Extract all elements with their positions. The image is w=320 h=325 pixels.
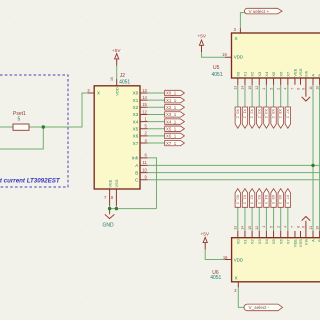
- svg-text:16: 16: [110, 77, 114, 81]
- svg-text:X: X: [97, 91, 100, 96]
- svg-text:X1: X1: [133, 98, 139, 103]
- svg-text:X3_1: X3_1: [166, 112, 177, 117]
- svg-text:V_select -: V_select -: [249, 305, 270, 310]
- svg-text:X2_1: X2_1: [166, 105, 177, 110]
- svg-text:X4_3: X4_3: [264, 195, 269, 205]
- svg-text:X4_1: X4_1: [166, 119, 177, 124]
- svg-text:12: 12: [142, 109, 147, 114]
- svg-text:X4: X4: [133, 119, 139, 124]
- svg-text:X6_3: X6_3: [278, 195, 283, 205]
- svg-text:X5: X5: [133, 126, 139, 131]
- svg-text:VEE: VEE: [107, 179, 112, 187]
- svg-text:X: X: [235, 276, 238, 281]
- svg-text:X6_2: X6_2: [278, 109, 283, 119]
- svg-text:6: 6: [302, 226, 306, 228]
- svg-text:X7_1: X7_1: [166, 141, 177, 146]
- svg-text:X1: X1: [243, 238, 248, 244]
- svg-text:X0_1: X0_1: [166, 91, 177, 96]
- svg-text:15: 15: [142, 102, 147, 107]
- svg-text:X4: X4: [264, 238, 269, 244]
- svg-text:Inh: Inh: [132, 156, 139, 161]
- svg-text:X4: X4: [264, 71, 269, 77]
- svg-text:13: 13: [234, 226, 238, 230]
- svg-text:X1_3: X1_3: [242, 195, 247, 205]
- svg-text:X2_3: X2_3: [250, 195, 255, 205]
- svg-text:A: A: [311, 74, 316, 77]
- svg-text:X2: X2: [250, 238, 255, 244]
- svg-text:+5V: +5V: [201, 231, 210, 236]
- svg-text:X0_2: X0_2: [235, 109, 240, 119]
- svg-text:10: 10: [142, 167, 147, 172]
- svg-text:VEE: VEE: [293, 239, 298, 247]
- svg-text:1: 1: [262, 226, 266, 228]
- svg-text:16: 16: [223, 255, 228, 260]
- svg-text:V select +: V select +: [249, 9, 270, 14]
- svg-text:11: 11: [143, 160, 148, 165]
- svg-text:X4_2: X4_2: [264, 109, 269, 119]
- svg-text:X0: X0: [235, 238, 240, 244]
- svg-text:16: 16: [222, 52, 227, 57]
- svg-text:set current LT3092EST: set current LT3092EST: [0, 177, 61, 184]
- svg-text:X3: X3: [257, 238, 262, 244]
- svg-text:Inh: Inh: [304, 239, 309, 245]
- svg-text:X3_3: X3_3: [257, 195, 262, 205]
- svg-text:Inh: Inh: [304, 71, 309, 77]
- svg-text:10: 10: [315, 86, 319, 90]
- svg-text:X3_2: X3_2: [257, 109, 262, 119]
- svg-text:4: 4: [284, 88, 288, 90]
- svg-text:5: 5: [269, 88, 273, 90]
- svg-text:VSS: VSS: [298, 68, 303, 76]
- svg-text:X5_3: X5_3: [271, 195, 276, 205]
- svg-text:VDD: VDD: [234, 258, 243, 263]
- svg-text:+5V: +5V: [198, 34, 207, 39]
- svg-text:X0: X0: [133, 91, 139, 96]
- svg-text:X2_2: X2_2: [250, 109, 255, 119]
- svg-text:X2: X2: [133, 105, 139, 110]
- svg-text:X0_3: X0_3: [235, 195, 240, 205]
- svg-text:VSS: VSS: [298, 239, 303, 247]
- svg-text:X6: X6: [278, 71, 283, 77]
- svg-text:X3: X3: [257, 71, 262, 77]
- svg-text:A: A: [311, 239, 316, 242]
- svg-text:X1_2: X1_2: [242, 109, 247, 119]
- svg-text:2: 2: [277, 88, 281, 90]
- svg-text:4051: 4051: [212, 72, 223, 78]
- svg-text:X7: X7: [285, 238, 290, 244]
- svg-text:VSS: VSS: [114, 179, 119, 187]
- svg-text:15: 15: [248, 86, 252, 90]
- svg-text:X7: X7: [285, 71, 290, 77]
- svg-text:11: 11: [309, 226, 313, 230]
- svg-text:7: 7: [291, 88, 295, 90]
- svg-text:14: 14: [241, 86, 245, 90]
- svg-text:X6: X6: [278, 238, 283, 244]
- svg-text:X: X: [235, 36, 238, 41]
- svg-text:X0: X0: [235, 71, 240, 77]
- svg-text:X5_1: X5_1: [166, 126, 177, 131]
- svg-text:X3: X3: [133, 112, 139, 117]
- svg-text:X5: X5: [271, 71, 276, 77]
- svg-text:10: 10: [315, 226, 319, 230]
- svg-text:5: 5: [18, 117, 21, 123]
- svg-text:X1: X1: [243, 71, 248, 77]
- svg-text:U5: U5: [213, 65, 220, 71]
- svg-text:X7: X7: [133, 141, 139, 146]
- svg-text:VEE: VEE: [293, 68, 298, 76]
- svg-text:14: 14: [142, 95, 147, 100]
- svg-text:7: 7: [291, 226, 295, 228]
- svg-text:X1_1: X1_1: [166, 98, 177, 103]
- svg-text:X7_3: X7_3: [285, 195, 290, 205]
- svg-text:X7_2: X7_2: [285, 109, 290, 119]
- svg-text:GND: GND: [103, 222, 115, 228]
- svg-text:VDD: VDD: [114, 87, 119, 96]
- svg-text:X5_2: X5_2: [271, 109, 276, 119]
- svg-text:VDD: VDD: [234, 55, 243, 60]
- svg-text:8: 8: [296, 226, 300, 228]
- svg-text:13: 13: [234, 86, 238, 90]
- svg-text:+5V: +5V: [112, 48, 121, 53]
- svg-text:X6: X6: [133, 134, 139, 139]
- svg-text:14: 14: [241, 226, 245, 230]
- svg-text:11: 11: [309, 86, 313, 90]
- svg-text:J2: J2: [120, 73, 126, 79]
- svg-text:X5: X5: [271, 238, 276, 244]
- svg-text:13: 13: [142, 88, 147, 93]
- svg-text:2: 2: [277, 226, 281, 228]
- svg-text:8: 8: [296, 88, 300, 90]
- svg-text:1: 1: [262, 88, 266, 90]
- svg-text:4: 4: [284, 226, 288, 228]
- svg-text:15: 15: [248, 226, 252, 230]
- svg-text:X2: X2: [250, 71, 255, 77]
- svg-text:6: 6: [302, 88, 306, 90]
- svg-text:5: 5: [269, 226, 273, 228]
- svg-text:B: B: [135, 170, 138, 175]
- svg-text:X6_1: X6_1: [166, 134, 177, 139]
- svg-text:12: 12: [255, 86, 259, 90]
- svg-text:12: 12: [255, 226, 259, 230]
- svg-text:4051: 4051: [119, 79, 130, 85]
- svg-text:4051: 4051: [210, 275, 221, 281]
